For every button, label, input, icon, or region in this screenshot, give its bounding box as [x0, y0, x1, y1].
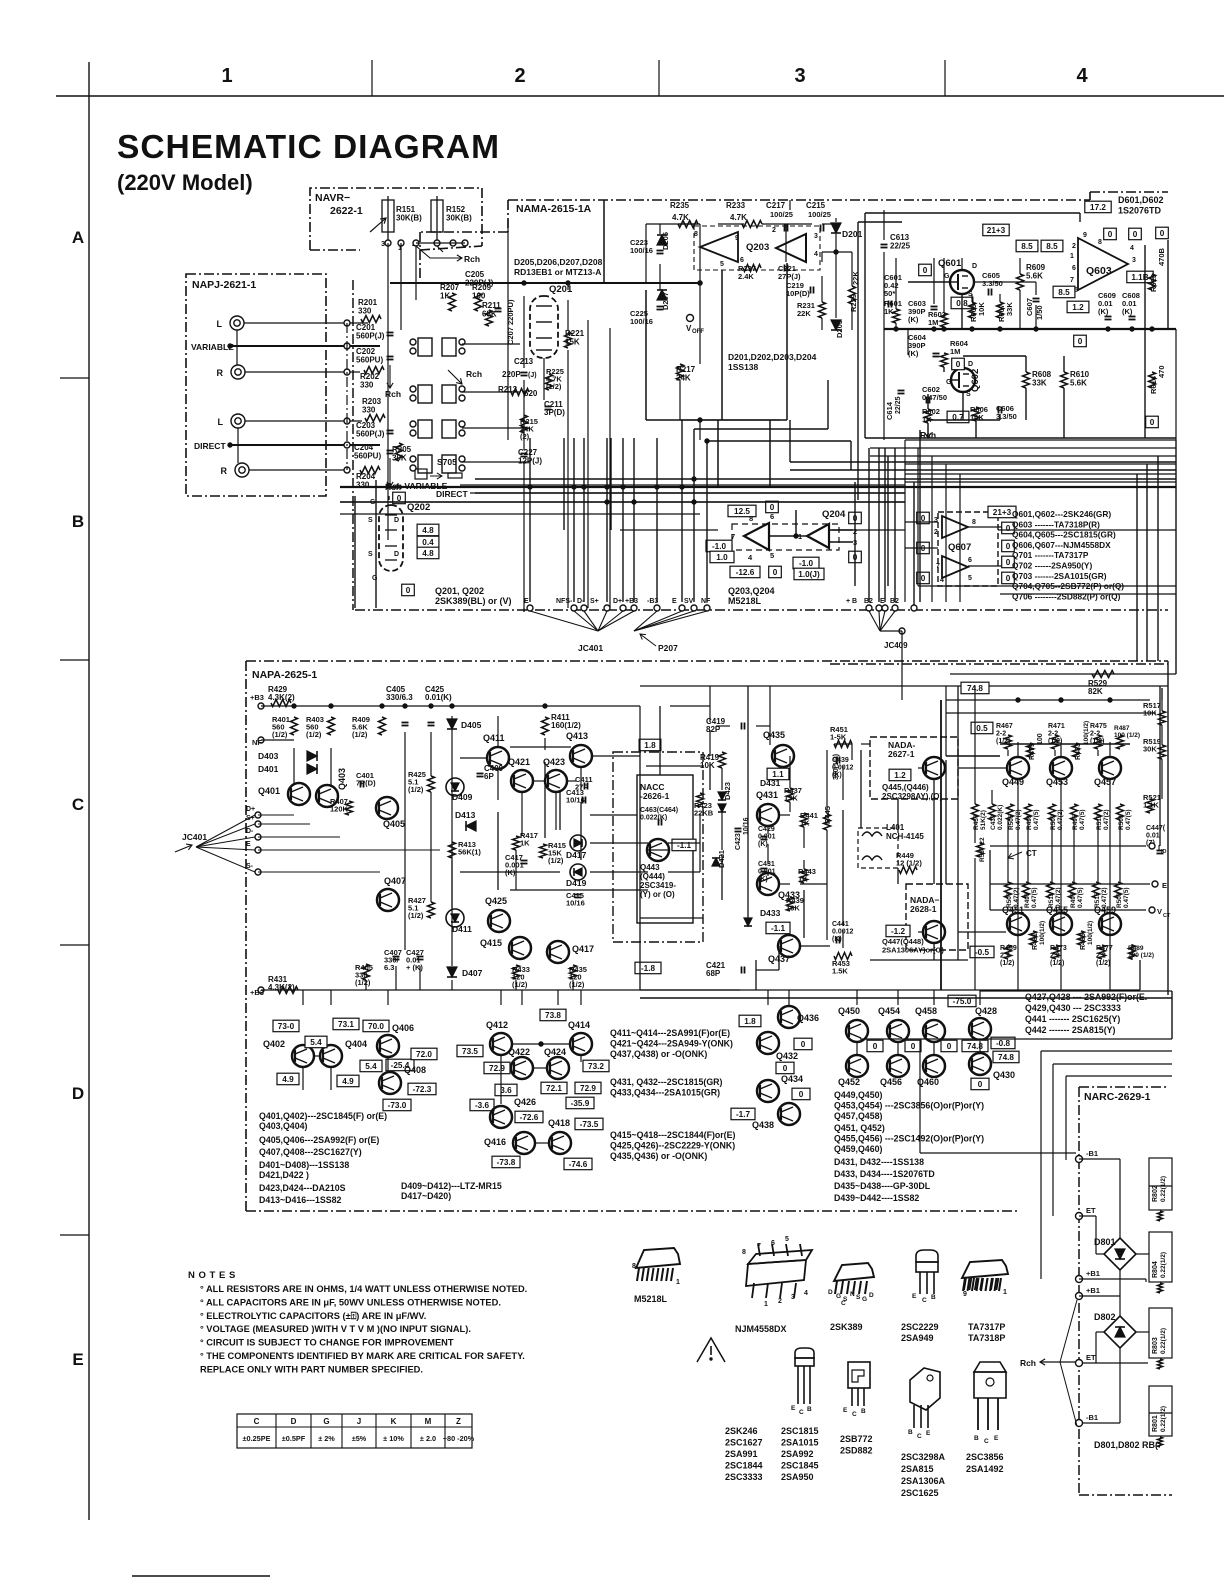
svg-text:ET: ET: [1086, 1353, 1096, 1362]
bottom blue rule: [132, 1575, 270, 1577]
svg-text:B: B: [72, 512, 84, 531]
svg-text:100: 100: [1037, 733, 1044, 745]
svg-text:R493: R493: [1024, 892, 1031, 908]
resistor R151: [387, 196, 389, 246]
svg-text:K: K: [391, 1417, 397, 1426]
label CT arrow: [1008, 852, 1022, 858]
value box 1.1B: [1127, 271, 1153, 283]
wire narc feeders: [1025, 990, 1172, 992]
svg-text:(1/2): (1/2): [548, 856, 564, 865]
svg-text:D: D: [394, 517, 399, 524]
capacitor C203: [387, 430, 394, 432]
transistor Q445: [923, 757, 945, 779]
value box -1.7: [731, 1108, 755, 1120]
svg-text:9: 9: [1083, 232, 1087, 239]
diode D205: [657, 235, 667, 245]
svg-text:C614: C614: [885, 401, 894, 420]
svg-text:R475: R475: [1090, 723, 1107, 730]
value box 0 q202 top: [393, 492, 406, 504]
module box NAPA left border: [246, 660, 1168, 662]
svg-text:Q441 ------- 2SC1625(Y): Q441 ------- 2SC1625(Y): [1025, 1014, 1120, 1024]
svg-text:2.4K: 2.4K: [738, 272, 754, 281]
svg-text:330: 330: [358, 307, 372, 316]
resistor R417: [513, 836, 520, 850]
svg-text:D601,D602: D601,D602: [1118, 195, 1164, 205]
svg-text:Rch: Rch: [385, 389, 401, 399]
stub fan C row: [255, 812, 261, 818]
svg-text:Q405: Q405: [383, 819, 405, 829]
transistor Q406: [377, 1035, 399, 1057]
resistor R610: [1061, 372, 1068, 388]
wire napa right vertical x941: [940, 700, 942, 990]
capacitor C427: [417, 956, 424, 958]
resistor R205: [396, 443, 403, 461]
value box 0 mid: [1074, 335, 1087, 347]
svg-text:-73.0: -73.0: [388, 1101, 407, 1110]
svg-text:R483: R483: [1075, 743, 1082, 760]
resistor R467 group: [1005, 735, 1012, 749]
svg-text:R229: R229: [849, 294, 858, 312]
resistor R407: [346, 801, 353, 815]
module box NAMA left border: [507, 200, 509, 232]
svg-text:Q421~Q424---2SA949-Y(ONK): Q421~Q424---2SA949-Y(ONK): [610, 1039, 733, 1049]
transistor Q425: [488, 910, 510, 932]
resistor R229: [849, 286, 856, 304]
svg-text:3: 3: [934, 517, 938, 524]
svg-text:470: 470: [1157, 365, 1166, 378]
svg-text:L: L: [218, 417, 224, 427]
svg-text:8: 8: [694, 231, 698, 238]
terminal Voff: [687, 315, 694, 322]
svg-text:C431: C431: [758, 861, 775, 868]
transistor Q602 fet: [951, 368, 975, 392]
svg-text:-B1: -B1: [1086, 1413, 1098, 1422]
transistor Q451: [1007, 913, 1029, 935]
wire right-edge verticals C row: [1167, 661, 1169, 995]
value box 4.9 b: [337, 1075, 359, 1087]
svg-text:4.8: 4.8: [422, 549, 434, 558]
svg-text:5.4: 5.4: [365, 1062, 377, 1071]
svg-text:Q457,Q458): Q457,Q458): [834, 1111, 882, 1121]
svg-text:Q430: Q430: [993, 1070, 1015, 1080]
wire q601 block internals: [883, 232, 885, 240]
value box 4.8 a: [417, 524, 439, 536]
svg-text:D401: D401: [258, 764, 279, 774]
value box 0 q602a: [952, 358, 965, 370]
svg-text:B: B: [974, 1435, 979, 1442]
row tick B-C: [60, 659, 89, 661]
svg-text:24K: 24K: [676, 374, 691, 383]
svg-text:Q445,(Q446): Q445,(Q446): [882, 783, 929, 792]
svg-text:100(1/2): 100(1/2): [1039, 921, 1046, 945]
svg-text:D: D: [394, 551, 399, 558]
capacitor C409: [477, 773, 484, 775]
svg-text:N: N: [850, 1291, 855, 1298]
svg-text:73-0: 73-0: [278, 1022, 295, 1031]
svg-text:R233: R233: [726, 201, 746, 210]
svg-text:D431: D431: [760, 778, 781, 788]
svg-text:330/6.3: 330/6.3: [386, 693, 413, 702]
svg-text:8: 8: [632, 1263, 636, 1270]
svg-text:Q411~Q414---2SA991(F)or(E): Q411~Q414---2SA991(F)or(E): [610, 1028, 730, 1038]
label Rch narc: [1040, 1361, 1058, 1363]
svg-text:(K): (K): [832, 772, 842, 779]
module box NACC-2626-1: [613, 752, 703, 942]
svg-text:72.1: 72.1: [546, 1084, 562, 1093]
svg-text:TA7318P: TA7318P: [968, 1333, 1005, 1343]
svg-text:R487: R487: [1114, 725, 1130, 732]
capacitor C421: [741, 967, 743, 974]
transistor Q438: [778, 1103, 800, 1125]
svg-text:4.9: 4.9: [282, 1075, 294, 1084]
svg-text:Q429,Q430 --- 2SC3333: Q429,Q430 --- 2SC3333: [1025, 1003, 1121, 1013]
svg-text:2SA1306AY)or(O): 2SA1306AY)or(O): [882, 946, 944, 955]
value box 0.8: [951, 297, 973, 309]
svg-text:° ALL CAPACITORS ARE IN μF,: ° ALL CAPACITORS ARE IN μF, 50WV UNLESS …: [200, 1297, 501, 1307]
transistor Q432a: [757, 1032, 779, 1054]
node +B3 bottom: [258, 987, 264, 993]
wire q601 area verticals: [961, 294, 963, 329]
capacitor C609: [1105, 316, 1112, 318]
value box -1.1: [672, 839, 696, 851]
dashed q203 box: [694, 226, 820, 270]
svg-text:3.3/50: 3.3/50: [982, 279, 1003, 288]
capacitor C415: [575, 894, 582, 896]
svg-text:5.6K: 5.6K: [1026, 272, 1043, 281]
svg-text:R802: R802: [1152, 1185, 1159, 1202]
svg-text:C: C: [852, 1411, 857, 1418]
value box 21.3: [983, 224, 1009, 236]
svg-text:G: G: [372, 575, 378, 582]
svg-text:E: E: [791, 1405, 796, 1412]
svg-text:0.22(1/2): 0.22(1/2): [1160, 1328, 1167, 1354]
jack L variable: [230, 316, 244, 330]
value box -72.3: [408, 1083, 436, 1095]
svg-text:68K: 68K: [482, 310, 497, 319]
svg-text:Q412: Q412: [486, 1020, 508, 1030]
wire vertical bus x388: [387, 243, 389, 540]
resistor R225: [546, 374, 553, 390]
svg-text:1.1K: 1.1K: [1143, 801, 1159, 810]
svg-text:E: E: [994, 1435, 999, 1442]
svg-text:Q402: Q402: [263, 1039, 285, 1049]
svg-text:620: 620: [524, 389, 538, 398]
svg-text:1: 1: [221, 65, 232, 87]
wire r517 links: [1161, 688, 1163, 700]
svg-text:30K: 30K: [392, 454, 407, 463]
wire bundle y462 y470: [790, 461, 1176, 463]
svg-text:Q603 -------TA7318P(R): Q603 -------TA7318P(R): [1012, 519, 1100, 529]
svg-text:1.2: 1.2: [894, 771, 906, 780]
svg-text:OFF: OFF: [692, 329, 704, 335]
svg-text:L401: L401: [886, 823, 905, 832]
fet switch block: [418, 338, 432, 356]
wire rch fan: [448, 370, 462, 384]
package M5218L sip: [636, 1248, 680, 1268]
svg-text:SV: SV: [684, 598, 694, 605]
svg-text:P207: P207: [658, 643, 678, 653]
svg-text:E: E: [843, 1407, 848, 1414]
svg-text:0: 0: [1078, 337, 1083, 346]
svg-text:Q202: Q202: [407, 502, 430, 513]
svg-text:1.5K: 1.5K: [832, 967, 848, 976]
svg-text:8.5: 8.5: [1046, 242, 1058, 251]
value box -25.4: [386, 1059, 414, 1071]
transistor Q453: [1050, 757, 1072, 779]
svg-text:0: 0: [978, 1080, 983, 1089]
resistor R604: [941, 353, 948, 367]
wire napa rail y713: [946, 712, 1156, 714]
svg-text:7: 7: [936, 563, 940, 570]
svg-text:30K(B): 30K(B): [396, 214, 422, 223]
svg-text:2.2: 2.2: [1050, 953, 1060, 960]
svg-text:-35.9: -35.9: [571, 1099, 590, 1108]
svg-text:2SC3333: 2SC3333: [725, 1472, 763, 1482]
svg-text:NF: NF: [701, 598, 711, 605]
diode D413: [466, 821, 476, 831]
svg-text:8: 8: [742, 1249, 746, 1256]
svg-text:0: 0: [956, 360, 961, 369]
svg-text:Q456: Q456: [880, 1077, 902, 1087]
resistor R801: [1149, 1386, 1172, 1436]
value box 0 q202 bottom: [402, 584, 415, 596]
svg-text:4: 4: [940, 577, 944, 584]
svg-text:C607: C607: [1025, 298, 1034, 316]
svg-text:S705: S705: [437, 457, 457, 467]
svg-text:R537 22: R537 22: [979, 837, 986, 862]
capacitor C439: [836, 757, 838, 764]
svg-text:(1/2): (1/2): [306, 730, 322, 739]
value box 73.2 rot: [583, 1060, 609, 1072]
svg-text:0.01: 0.01: [1146, 833, 1160, 840]
value box 5.4 rot: [305, 1036, 327, 1048]
svg-text:(1/2): (1/2): [352, 730, 368, 739]
svg-text:21+3: 21+3: [993, 508, 1012, 517]
svg-text:0: 0: [1108, 230, 1113, 239]
node +B1 a: [1076, 1276, 1083, 1283]
value box 5.4 b: [360, 1060, 382, 1072]
svg-text:Q425,Q426)--2SC2229-Y(ONK): Q425,Q426)--2SC2229-Y(ONK): [610, 1141, 735, 1151]
svg-text:Q706 --------2SD882(P) or(Q): Q706 --------2SD882(P) or(Q): [1012, 591, 1121, 601]
svg-text:13K: 13K: [784, 794, 798, 803]
svg-text:2-2: 2-2: [1090, 731, 1100, 738]
svg-text:4.3K(2): 4.3K(2): [268, 693, 295, 702]
capacitor C417: [521, 860, 528, 862]
svg-text:6: 6: [771, 1240, 775, 1247]
transistor Q408: [379, 1072, 401, 1094]
value boxes row 0: [867, 1040, 883, 1052]
terminal IID: [1149, 843, 1155, 849]
resistor R487: [1117, 735, 1124, 749]
svg-text:Q415: Q415: [480, 938, 502, 948]
resistor R203: [365, 415, 385, 422]
resistor R477: [1099, 945, 1106, 959]
svg-text:Q425: Q425: [485, 896, 507, 906]
svg-text:NAPJ-2621-1: NAPJ-2621-1: [192, 279, 256, 291]
svg-text:12.5: 12.5: [734, 507, 750, 516]
svg-text:2SK246: 2SK246: [725, 1426, 758, 1436]
value box 3.6: [495, 1084, 517, 1096]
resistor R804: [1149, 1232, 1172, 1282]
svg-text:-1.8: -1.8: [641, 964, 656, 973]
safety mark triangle: [697, 1338, 725, 1362]
resistor R803: [1149, 1308, 1172, 1358]
svg-text:-1.1: -1.1: [677, 841, 692, 850]
package to92 small: [795, 1348, 814, 1358]
wire right edge verticals B-to-C: [1175, 440, 1177, 674]
resistor R419: [719, 752, 726, 768]
rotated resistor column labels upper: [972, 804, 979, 820]
wire Rch arrow NAVR: [416, 246, 445, 258]
resistor R601: [893, 309, 900, 323]
resistor R475: [1095, 735, 1102, 749]
capacitor C441: [836, 937, 838, 944]
svg-text:30K: 30K: [1143, 745, 1157, 754]
resistor R429: [271, 700, 291, 707]
wire napa vertical feeders from B row: [523, 608, 525, 612]
svg-text:D419: D419: [566, 878, 587, 888]
svg-text:-1.0: -1.0: [712, 542, 727, 551]
rotated resistor column labels lower: [1005, 882, 1012, 898]
svg-text:Q422: Q422: [508, 1047, 530, 1057]
jack L direct: [231, 414, 245, 428]
ruler tick 1-2: [371, 60, 373, 96]
transistor Q403: [316, 785, 338, 807]
diode D411: [446, 909, 464, 927]
svg-text:3: 3: [791, 1294, 795, 1301]
svg-text:E: E: [672, 598, 677, 605]
svg-text:2SC1844: 2SC1844: [725, 1461, 763, 1471]
op-amp Q204 left: [744, 523, 769, 550]
svg-text:0: 0: [921, 574, 926, 583]
svg-text:G: G: [944, 273, 950, 280]
page frame ruler line: [56, 95, 1224, 97]
diode D417: [570, 835, 586, 851]
svg-text:Q203: Q203: [746, 242, 769, 253]
svg-text:1SS138: 1SS138: [728, 362, 759, 372]
resistor R802: [1149, 1158, 1172, 1210]
svg-text:5: 5: [720, 261, 724, 268]
svg-text:D+: D+: [613, 598, 622, 605]
wire napa top rail right: [640, 685, 1168, 687]
svg-text:DIRECT: DIRECT: [194, 441, 226, 451]
value box 1.1 q431: [767, 768, 789, 780]
value box 0 q603c: [1156, 227, 1169, 239]
svg-text:Q411: Q411: [483, 733, 505, 743]
capacitor C401: [360, 781, 362, 788]
module box NADA-2628-1: [906, 884, 968, 950]
transistor Q443: [647, 839, 669, 861]
svg-text:0: 0: [923, 266, 928, 275]
svg-text:72.9: 72.9: [489, 1064, 505, 1073]
resistor R209: [475, 293, 482, 311]
svg-text:1: 1: [764, 1301, 768, 1308]
svg-text:R: R: [217, 368, 224, 378]
svg-text:D431, D432----1SS138: D431, D432----1SS138: [834, 1157, 924, 1167]
value box -73.8: [492, 1156, 520, 1168]
capacitor C425: [428, 722, 435, 724]
resistor R453: [834, 953, 852, 960]
resistor R483: [1073, 743, 1080, 757]
value box 4.9 a: [277, 1073, 299, 1085]
transistor Q401: [288, 783, 310, 805]
value box 72.1: [541, 1082, 567, 1094]
svg-text:REPLACE ONLY WITH PART NUM: REPLACE ONLY WITH PART NUMBER SPECIFIED.: [200, 1364, 423, 1374]
svg-text:R473: R473: [1050, 945, 1067, 952]
value box 8.5 b: [1041, 240, 1063, 252]
wire B-row vertical bus mid group: [681, 420, 683, 602]
svg-text:2SC2229: 2SC2229: [901, 1322, 939, 1332]
svg-text:Q432: Q432: [776, 1051, 798, 1061]
svg-text:5: 5: [968, 575, 972, 582]
svg-text:(2): (2): [520, 432, 530, 441]
value box 4.8 b: [417, 547, 439, 559]
value box -73.5: [575, 1118, 603, 1130]
value box 0.5: [971, 722, 993, 734]
svg-text:Q458: Q458: [915, 1006, 937, 1016]
transistor Q459: [1099, 913, 1121, 935]
wire q201 bus: [523, 296, 525, 368]
svg-text:5.4: 5.4: [310, 1038, 322, 1047]
wire R variable: [245, 371, 360, 373]
svg-text:2SD882: 2SD882: [840, 1446, 873, 1456]
svg-text:Q417: Q417: [572, 944, 594, 954]
value box -0.5: [970, 946, 994, 958]
resistor R201: [361, 316, 381, 323]
svg-text:R481: R481: [1032, 933, 1039, 950]
svg-text:(K): (K): [832, 936, 842, 943]
diode D401: [307, 764, 317, 774]
svg-text:1.0: 1.0: [716, 553, 728, 562]
capacitor C602: [926, 397, 928, 404]
svg-text:Q450: Q450: [838, 1006, 860, 1016]
svg-text:B: B: [908, 1429, 913, 1436]
svg-text:G: G: [836, 1293, 841, 1300]
svg-text:13K: 13K: [786, 904, 800, 913]
svg-text:Q413: Q413: [566, 731, 588, 741]
transistor Q201 dual fet: [530, 296, 558, 358]
svg-text:2SA1306A: 2SA1306A: [901, 1476, 946, 1486]
svg-text:R505: R505: [1008, 814, 1015, 830]
wire Rch arrow 1: [389, 365, 391, 388]
svg-text:4.7K: 4.7K: [672, 213, 689, 222]
wire bus verticals B row: [904, 440, 906, 602]
wire fet outputs: [346, 323, 348, 470]
transistor Q435: [772, 745, 794, 767]
svg-text:CT: CT: [1163, 913, 1171, 919]
svg-text:R501: R501: [1118, 814, 1125, 830]
svg-text:1.8: 1.8: [644, 741, 656, 750]
svg-text:8.5: 8.5: [1021, 242, 1033, 251]
svg-text:560PU): 560PU): [356, 356, 383, 365]
svg-text:Q457: Q457: [1094, 777, 1116, 787]
resistor R415: [540, 844, 547, 858]
svg-text:D201,D202,D203,D204: D201,D202,D203,D204: [728, 352, 817, 362]
svg-text:D401~D408)---1SS138: D401~D408)---1SS138: [259, 1160, 349, 1170]
svg-text:C463(C464): C463(C464): [640, 807, 678, 814]
svg-text:8: 8: [749, 514, 753, 523]
svg-text:(Q444): (Q444): [640, 872, 665, 881]
svg-text:JC409: JC409: [884, 641, 908, 650]
svg-text:R495: R495: [1072, 814, 1079, 830]
svg-text:Q201, Q202: Q201, Q202: [435, 586, 484, 596]
wire DIRECT line: [230, 444, 380, 446]
svg-text:0.22(1/2): 0.22(1/2): [1160, 1406, 1167, 1432]
svg-text:6: 6: [1072, 265, 1076, 272]
wire L variable: [244, 322, 368, 324]
svg-text:Q426: Q426: [514, 1097, 536, 1107]
svg-text:L: L: [217, 319, 223, 329]
